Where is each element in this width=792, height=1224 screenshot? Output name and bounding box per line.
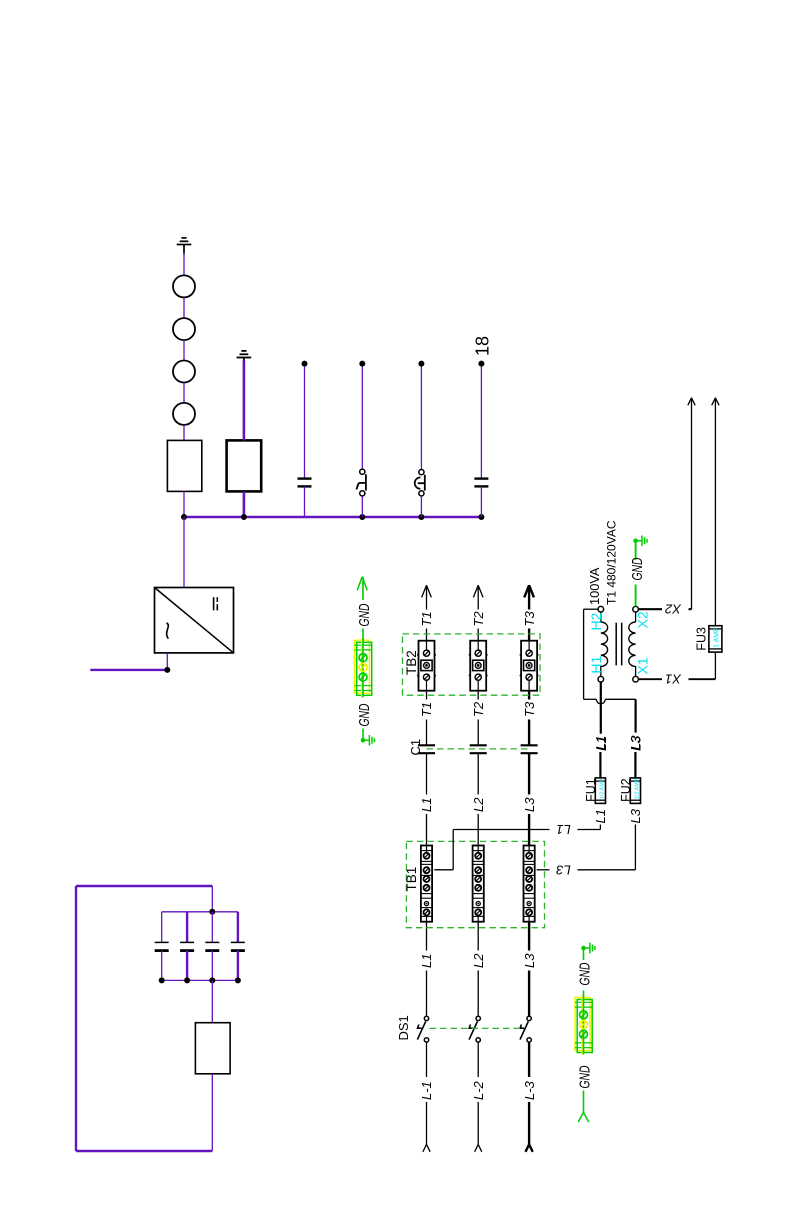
svg-text:T1 480/120VAC: T1 480/120VAC (605, 520, 619, 605)
svg-text:L3: L3 (522, 953, 537, 968)
svg-text:L3: L3 (556, 862, 571, 877)
svg-text:L3: L3 (628, 808, 643, 823)
svg-text:L-1: L-1 (419, 1081, 434, 1100)
svg-text:1/2 AMP: 1/2 AMP (600, 778, 606, 799)
svg-text:T3: T3 (522, 701, 537, 717)
svg-text:1 AMP: 1 AMP (714, 627, 721, 648)
svg-text:L1: L1 (593, 809, 608, 823)
svg-text:GND: GND (577, 1065, 594, 1088)
svg-text:L3: L3 (522, 797, 537, 812)
svg-text:DS1: DS1 (396, 1015, 411, 1040)
svg-text:FU2: FU2 (619, 778, 633, 802)
svg-text:L-2: L-2 (471, 1080, 486, 1100)
svg-text:L1: L1 (419, 798, 434, 812)
svg-text:FU1: FU1 (584, 778, 598, 802)
svg-text:T3: T3 (522, 611, 537, 627)
svg-text:1/2 AMP: 1/2 AMP (635, 778, 641, 799)
svg-text:H2: H2 (588, 612, 604, 630)
svg-text:X1: X1 (665, 672, 682, 687)
svg-text:X2: X2 (634, 611, 650, 628)
svg-text:L2: L2 (471, 797, 486, 812)
svg-text:GND: GND (356, 603, 373, 626)
svg-text:TB2: TB2 (404, 650, 419, 675)
svg-text:X2: X2 (664, 602, 682, 617)
svg-text:TB1: TB1 (404, 867, 419, 892)
svg-text:100VA: 100VA (587, 567, 602, 605)
svg-text:L1: L1 (419, 954, 434, 968)
svg-text:T2: T2 (471, 701, 486, 717)
svg-text:T1: T1 (419, 611, 434, 626)
svg-text:FU3: FU3 (694, 627, 708, 651)
svg-text:L3: L3 (629, 735, 644, 751)
svg-text:GND: GND (577, 962, 594, 985)
svg-text:GND: GND (356, 703, 373, 726)
svg-text:T2: T2 (471, 611, 486, 627)
svg-text:18: 18 (473, 336, 493, 356)
svg-text:GND: GND (629, 557, 646, 580)
svg-text:L-3: L-3 (522, 1080, 537, 1100)
svg-text:X1: X1 (634, 657, 650, 674)
svg-text:L2: L2 (471, 953, 486, 968)
svg-text:L1: L1 (556, 822, 570, 837)
svg-text:L1: L1 (594, 736, 609, 751)
svg-text:T1: T1 (419, 702, 434, 717)
svg-text:C1: C1 (408, 739, 423, 756)
svg-text:H1: H1 (588, 655, 604, 673)
